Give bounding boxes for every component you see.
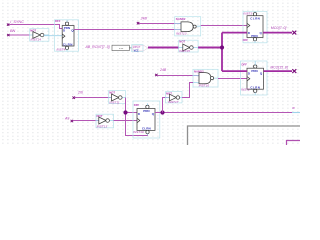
wire BN to U1 input [9, 34, 30, 36]
svg-text:INST16: INST16 [199, 84, 210, 88]
bus wire U7.Q to MCO[15..8] [264, 70, 293, 72]
flip-flop U7 DFF INST2 [241, 61, 268, 95]
bus wire U5 out to junction [198, 47, 222, 49]
inverter U11 NOT INST17 [166, 91, 183, 103]
svg-text:MCO[15..8]: MCO[15..8] [270, 66, 287, 70]
wire 2I6 to U8 input [75, 97, 112, 99]
node 2I6 label [73, 91, 83, 99]
svg-text:24B: 24B [140, 17, 148, 21]
wire node to U10.D [126, 112, 138, 114]
svg-text:DFF: DFF [243, 38, 249, 42]
svg-text:2I6: 2I6 [77, 91, 83, 95]
svg-text:INST2: INST2 [241, 88, 250, 92]
svg-text:PRN: PRN [251, 34, 257, 38]
input port P1 INPUT/VCC symbol [132, 45, 148, 53]
svg-text:CLRN: CLRN [250, 86, 260, 90]
svg-text:AB_RCNT[7..0]: AB_RCNT[7..0] [85, 45, 111, 49]
svg-text:INST3: INST3 [243, 12, 252, 16]
node 24B label (top) [137, 17, 148, 25]
wire highlighted end segment [292, 112, 300, 114]
bus wire port to U5 [148, 47, 179, 49]
node MCO[7..0] label [271, 26, 296, 34]
svg-text:INST10: INST10 [133, 130, 144, 134]
node BN label [7, 29, 15, 36]
svg-text:DFF: DFF [55, 19, 61, 23]
bus wire U4.Q to MCO[7..0] [263, 32, 292, 34]
svg-text:MCO[7..0]: MCO[7..0] [271, 26, 287, 30]
inverter U5 NOT INST15 (bus) [179, 39, 198, 53]
svg-text:CLRN: CLRN [63, 42, 73, 46]
wire U11 out up to U6 input B [182, 83, 193, 98]
svg-text:INST4: INST4 [57, 47, 66, 51]
svg-text:A9: A9 [64, 116, 69, 120]
wire node up to U11 input [163, 98, 170, 113]
wire U9 out to U10 clock [114, 120, 138, 122]
bus wire to U4.D [222, 32, 247, 34]
input port P1 pin box [112, 45, 132, 50]
nand gate U3 NAND2 INST13 [175, 17, 201, 36]
svg-text:I_SYNC: I_SYNC [10, 20, 24, 24]
svg-text:VCC: VCC [134, 49, 139, 52]
wire U6 out to U7 clock [218, 78, 247, 80]
svg-text:PRN: PRN [251, 69, 257, 73]
wire U3 out to U4 clock [201, 25, 247, 27]
node MCO[15..8] label [270, 66, 296, 73]
svg-text:DFF: DFF [242, 63, 248, 67]
wire U1 out to U2 clock (highlighted) [44, 35, 62, 37]
svg-text:CLRN: CLRN [250, 16, 259, 20]
wire I_SYNC to U2.D [9, 25, 62, 29]
wire U2.Q to U3 input B [74, 29, 181, 31]
svg-text:INST13: INST13 [97, 125, 108, 129]
node 24B label (bottom) [155, 68, 167, 76]
flip-flop U10 DFF INST10 [133, 101, 160, 138]
wire U8 out down to node and CLRN of U10 [126, 98, 148, 136]
svg-text:INST13: INST13 [176, 32, 187, 36]
junction node D branch [123, 110, 127, 114]
junction node Q branch [160, 110, 164, 114]
svg-text:NOT: NOT [179, 39, 185, 43]
svg-text:DFF: DFF [134, 103, 140, 107]
flip-flop U2 DFF INST4 [55, 19, 79, 51]
wire A9 to U9 input [73, 120, 99, 122]
inverter U8 NOT INST11 [109, 91, 126, 105]
node I_SYNC label [7, 20, 24, 26]
node A9 label [64, 116, 73, 122]
svg-text:INST17: INST17 [168, 100, 179, 104]
output port corner bottom right [287, 141, 301, 146]
frame gray corner line [188, 126, 301, 145]
inverter U1 NOT INST14 [30, 28, 49, 41]
svg-text:NAND2: NAND2 [176, 17, 186, 21]
flip-flop U4 DFF INST3 (flipped) [243, 11, 267, 43]
wire U10.Q long to right edge [155, 112, 292, 114]
svg-text:24B: 24B [159, 68, 167, 72]
svg-text:BN: BN [10, 29, 16, 33]
wire 24B to U3 input A [139, 23, 181, 25]
bus wire to U7.D [222, 70, 247, 72]
bus wire vertical trunk [221, 33, 223, 72]
nand gate U6 NAND2 INST16 [193, 69, 218, 87]
svg-text:PRN: PRN [143, 109, 149, 113]
svg-text:INST11: INST11 [109, 100, 120, 104]
junction bus node [220, 45, 224, 49]
svg-text:INST15: INST15 [179, 49, 190, 53]
wire 24B to U6 input A [157, 75, 199, 77]
svg-text:INST14: INST14 [31, 38, 42, 42]
inverter U9 NOT INST13 [96, 114, 114, 128]
